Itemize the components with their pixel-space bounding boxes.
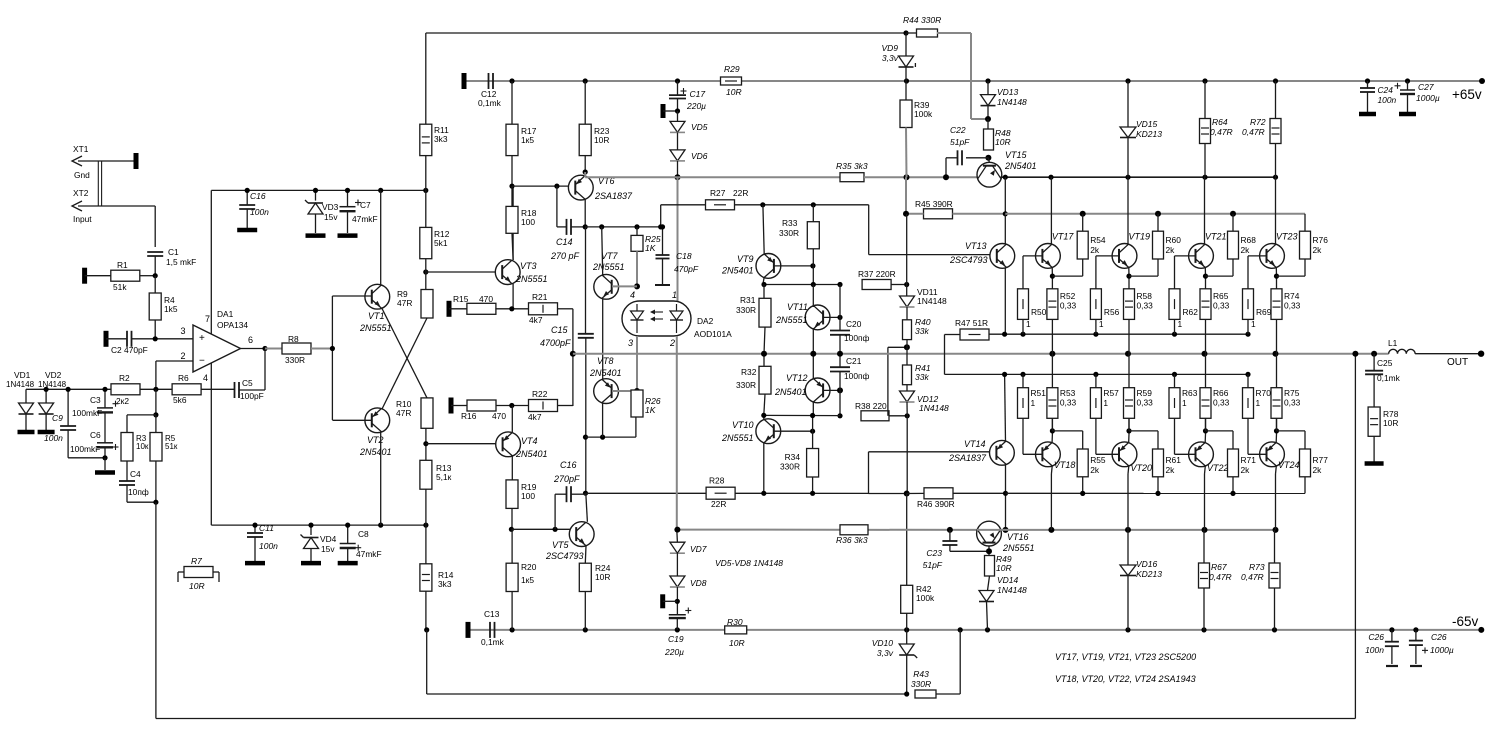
wire C15 column: [585, 227, 587, 334]
node R10 R13 VT4base: [423, 441, 428, 446]
svg-text:R69: R69: [1256, 307, 1272, 317]
svg-text:R61: R61: [1166, 455, 1182, 465]
svg-text:R47 51R: R47 51R: [955, 318, 988, 328]
wire row176: [585, 176, 840, 178]
wire VT11 base: [824, 316, 841, 318]
wire C4 to R5 bottom: [127, 501, 156, 503]
resistor R69 1ohm: [1243, 289, 1254, 320]
svg-text:VD7: VD7: [690, 544, 707, 554]
wire R43 right: [936, 693, 960, 695]
wire feedback riser: [1354, 354, 1356, 719]
wire pin6 to C5: [264, 349, 266, 391]
transistor VT16: [977, 521, 1002, 546]
svg-text:10R: 10R: [726, 87, 742, 97]
transistor VT11: [805, 305, 830, 330]
resistor R5: [155, 415, 157, 433]
wire emitter to R54: [1052, 275, 1082, 277]
svg-text:R66: R66: [1213, 388, 1229, 398]
wire VT23 emitter: [1275, 268, 1277, 277]
node C16: [245, 188, 250, 193]
resistor R63 1ohm: [1169, 388, 1180, 419]
resistor R42: [901, 585, 913, 613]
node rail177 x1205: [1202, 175, 1207, 180]
wire emitter to R61: [1129, 430, 1158, 432]
svg-text:1N4148: 1N4148: [997, 585, 1027, 595]
svg-text:2N5401: 2N5401: [721, 266, 754, 276]
wire output bus: [573, 353, 1389, 355]
resistor R18: [511, 186, 513, 206]
svg-text:R67: R67: [1211, 562, 1227, 572]
resistor R53 0.33: [1047, 388, 1058, 419]
node VT1 collector rail: [378, 188, 383, 193]
node VD10 R43: [904, 691, 909, 696]
svg-text:2SA1837: 2SA1837: [948, 453, 987, 463]
svg-text:C15: C15: [551, 325, 569, 335]
wire VT22 base: [1175, 453, 1197, 455]
wire DA2 pin3 down: [636, 336, 638, 390]
node emitter VT19: [1126, 274, 1131, 279]
node R2 C3: [102, 387, 107, 392]
svg-text:2N5551: 2N5551: [359, 323, 392, 333]
svg-text:C11: C11: [259, 523, 274, 533]
capacitor C24: [1367, 81, 1369, 88]
svg-text:R73: R73: [1249, 562, 1265, 572]
svg-text:0,33: 0,33: [1213, 398, 1230, 408]
wire R61 bottom: [1157, 477, 1159, 494]
ground C8: [338, 561, 358, 566]
wire VT1 emitter cross: [382, 309, 427, 398]
node VT11 base C20: [837, 315, 842, 320]
node VT7 collector: [599, 224, 604, 229]
svg-text:51pF: 51pF: [950, 137, 970, 147]
svg-text:C7: C7: [360, 200, 371, 210]
wire VT8 collector lead: [602, 404, 604, 438]
node VT16 right: [1003, 527, 1009, 533]
drive row 213 dots: [1080, 211, 1086, 217]
svg-text:R64: R64: [1212, 117, 1228, 127]
chassis tick -65v rail: [466, 622, 471, 638]
svg-text:47R: 47R: [397, 298, 412, 308]
svg-text:R37 220R: R37 220R: [858, 269, 896, 279]
svg-text:XT1: XT1: [73, 144, 89, 154]
wire VT6 base: [512, 185, 576, 187]
node R27 VT9: [760, 202, 765, 207]
svg-text:VT23: VT23: [1276, 232, 1298, 242]
opto DA2 photodiode: [636, 304, 638, 311]
resistor R45: [905, 177, 907, 214]
wire base column: [331, 296, 333, 420]
resistor R73: [1274, 530, 1276, 563]
resistor R57 1ohm: [1090, 388, 1101, 419]
wire R25 bottom: [636, 251, 638, 286]
resistor R59 0.33: [1124, 388, 1135, 419]
wire collector rail: [1001, 176, 1276, 178]
wire VT3 emitter: [512, 284, 514, 309]
wire VT18 base: [1023, 453, 1043, 455]
wire VT21 collector: [1204, 177, 1206, 244]
chassis tick C2: [104, 331, 109, 347]
wire VT1 base: [332, 295, 372, 297]
svg-text:R6: R6: [178, 373, 189, 383]
ground C11: [245, 561, 265, 566]
wire VT9 collector exit: [763, 278, 764, 285]
svg-text:R22: R22: [532, 389, 548, 399]
capacitor C25: [1373, 354, 1375, 371]
svg-text:R34: R34: [785, 452, 801, 462]
wire VT23 collector: [1275, 177, 1277, 244]
svg-text:1N4148: 1N4148: [38, 380, 67, 389]
svg-text:R53: R53: [1060, 388, 1076, 398]
wire -65v rail: [468, 629, 725, 631]
zener VD4: [310, 525, 312, 535]
resistor R29: [721, 77, 742, 85]
junction dots -65v rail: [509, 627, 514, 632]
wire emitter to R71: [1206, 430, 1234, 432]
transistor VT20: [1112, 442, 1137, 467]
svg-text:R46 390R: R46 390R: [917, 499, 955, 509]
wire R38 right: [889, 415, 907, 417]
svg-text:R58: R58: [1137, 291, 1153, 301]
wire R14 column to R43 line: [426, 630, 428, 694]
svg-text:47mkF: 47mkF: [352, 214, 378, 224]
svg-text:100n: 100n: [44, 433, 63, 443]
terminal OUT: [1478, 351, 1484, 357]
svg-text:Input: Input: [73, 214, 92, 224]
resistor R58 0.33: [1124, 289, 1135, 320]
svg-text:C4: C4: [130, 469, 141, 479]
svg-text:2N5401: 2N5401: [774, 387, 807, 397]
svg-text:Gnd: Gnd: [74, 170, 90, 180]
resistor R50 1ohm: [1018, 289, 1029, 320]
resistor R34: [807, 449, 819, 478]
wire top-left supply: [426, 32, 906, 34]
node emitter VT17: [1050, 274, 1055, 279]
node VT8 base R26: [634, 388, 640, 394]
svg-text:100mkF: 100mkF: [72, 408, 102, 418]
node C19 top: [675, 599, 680, 604]
wire R23 to VT6: [584, 156, 586, 176]
chassis tick C19: [660, 594, 665, 608]
wire feedback down: [155, 502, 157, 718]
wire VT8 collector row: [586, 436, 636, 438]
resistor R27: [706, 200, 735, 210]
node C17 VD5: [675, 108, 680, 113]
svg-text:C21: C21: [846, 356, 862, 366]
node C6 C9: [102, 455, 107, 460]
resistor R48: [987, 119, 989, 129]
diode VD16: [1127, 530, 1129, 565]
svg-text:AOD101A: AOD101A: [694, 329, 732, 339]
node R12 R9 VT3base: [423, 269, 428, 274]
wire R40R41 tap: [887, 347, 889, 416]
resistor R61 2k: [1153, 449, 1164, 477]
capacitor C3: [104, 389, 106, 408]
svg-text:C25: C25: [1377, 358, 1393, 368]
node emitter VT22: [1203, 428, 1208, 433]
svg-text:XT2: XT2: [73, 188, 89, 198]
svg-text:−: −: [199, 356, 205, 367]
resistor R78: [1373, 374, 1375, 407]
wire VT17 base: [1023, 255, 1043, 257]
wire VT4 emitter: [511, 406, 513, 433]
svg-text:3k3: 3k3: [438, 579, 452, 589]
svg-text:330R: 330R: [911, 679, 931, 689]
wire row176 right: [864, 176, 980, 178]
wire R28 right: [735, 492, 868, 494]
wire R56 bottom: [1095, 319, 1097, 334]
svg-text:R2: R2: [119, 373, 130, 383]
svg-text:33k: 33k: [915, 372, 929, 382]
svg-text:220µ: 220µ: [664, 647, 684, 657]
wire VT11 collector: [812, 285, 814, 308]
svg-text:1000µ: 1000µ: [1416, 93, 1440, 103]
node C14 tap: [554, 184, 559, 189]
resistor R52 0.33: [1047, 289, 1058, 320]
svg-text:1: 1: [1182, 398, 1187, 408]
wire VT7 base lead: [612, 285, 637, 287]
node C16 right: [583, 491, 588, 496]
lower drive rail dots: [1002, 372, 1007, 377]
wire R44 right: [937, 32, 971, 34]
svg-text:0,1mk: 0,1mk: [481, 637, 505, 647]
transistor VT14: [990, 440, 1015, 465]
svg-text:4700pF: 4700pF: [540, 338, 571, 348]
node C4 R5: [153, 500, 158, 505]
svg-text:0,47R: 0,47R: [1210, 127, 1233, 137]
node emitter VT18: [1050, 428, 1055, 433]
node emitter VT23: [1274, 274, 1279, 279]
wire VT13 emitter: [1004, 268, 1006, 334]
node VT8 collector: [600, 435, 605, 440]
chassis tick R15: [447, 301, 452, 317]
svg-text:R77: R77: [1313, 455, 1329, 465]
svg-text:2k: 2k: [1166, 245, 1176, 255]
resistor R76 2k: [1300, 231, 1311, 259]
svg-text:0,1mk: 0,1mk: [478, 98, 502, 108]
svg-text:R15: R15: [453, 294, 469, 304]
wire DA2 pin2 down: [676, 336, 678, 530]
svg-text:330R: 330R: [736, 380, 756, 390]
svg-text:100: 100: [521, 217, 535, 227]
ground VD4: [301, 561, 321, 566]
wire VT5 base row: [511, 528, 576, 530]
svg-text:1: 1: [1256, 398, 1261, 408]
svg-text:VT21: VT21: [1205, 232, 1227, 242]
resistor R39: [905, 81, 907, 100]
capacitor C26: [1391, 630, 1393, 642]
wire R27 riser: [660, 205, 662, 227]
svg-text:2SC4793: 2SC4793: [949, 255, 988, 265]
node C8: [345, 523, 350, 528]
wire VT7 collector: [602, 227, 603, 275]
wire VT10 base: [774, 430, 813, 432]
wire VT16 bottom: [988, 546, 990, 556]
resistor R41: [906, 340, 908, 348]
svg-text:270pF: 270pF: [553, 474, 580, 484]
wire +15v rail: [211, 189, 425, 191]
svg-text:R59: R59: [1137, 388, 1153, 398]
resistor R30: [725, 626, 747, 634]
svg-text:100mkF: 100mkF: [70, 444, 100, 454]
svg-text:VD10: VD10: [872, 638, 894, 648]
resistor R26: [631, 390, 643, 417]
node R8 base column: [330, 346, 335, 351]
capacitor C17: [677, 81, 679, 95]
svg-text:VD8: VD8: [690, 578, 707, 588]
svg-text:-65v: -65v: [1452, 614, 1479, 629]
node R14 rail: [424, 627, 429, 632]
chassis tick +65v rail: [462, 73, 467, 89]
svg-text:VT17, VT19, VT21, VT23 2SC5200: VT17, VT19, VT21, VT23 2SC5200: [1055, 652, 1196, 662]
op-amp DA1: [193, 325, 241, 372]
resistor R21: [529, 303, 558, 315]
svg-text:R33: R33: [782, 218, 798, 228]
wire lower coll row: [977, 529, 1276, 531]
capacitor C7: [347, 190, 349, 206]
wire R18 bottom to VT3: [512, 233, 513, 260]
resistor R35: [840, 173, 864, 182]
resistor R13: [425, 428, 427, 443]
node emitter VT21: [1203, 274, 1208, 279]
transistor VT13: [990, 244, 1015, 269]
capacitor C8: [347, 525, 349, 543]
wire VD8 to C19: [676, 587, 678, 615]
svg-text:4k7: 4k7: [528, 412, 542, 422]
svg-text:C27: C27: [1418, 82, 1434, 92]
svg-text:100k: 100k: [914, 109, 933, 119]
resistor R2: [111, 384, 140, 395]
svg-text:DA1: DA1: [217, 309, 234, 319]
resistor R6: [172, 384, 201, 395]
transistor VT9: [756, 254, 781, 279]
node row416 R34: [810, 413, 815, 418]
capacitor C18: [662, 227, 664, 255]
node rail177 x1051: [1048, 175, 1053, 180]
node VD2: [44, 387, 49, 392]
svg-text:220µ: 220µ: [686, 101, 706, 111]
resistor R36: [840, 525, 868, 535]
svg-text:3: 3: [628, 338, 633, 348]
resistor R77 2k: [1300, 449, 1311, 477]
wire R70 top: [1247, 374, 1249, 387]
wire VT12 base: [824, 389, 841, 391]
wire VT12 collector: [812, 402, 814, 417]
zener VD9: [905, 33, 907, 56]
wire R17 bottom: [511, 156, 513, 187]
svg-text:L1: L1: [1388, 338, 1398, 348]
svg-text:VT18, VT20, VT22, VT24 2SA1943: VT18, VT20, VT22, VT24 2SA1943: [1055, 674, 1196, 684]
wire VT9 emitter: [763, 205, 764, 255]
node row493 x907: [904, 491, 910, 497]
svg-text:0,33: 0,33: [1284, 301, 1301, 311]
ground VD1: [18, 430, 35, 435]
node C1 R1 R4: [153, 273, 158, 278]
diode VD14: [988, 576, 990, 591]
wire emitter to R68: [1206, 275, 1234, 277]
svg-text:51к: 51к: [165, 442, 178, 451]
wire R24 bottom: [584, 592, 586, 630]
node C7: [345, 188, 350, 193]
svg-text:10R: 10R: [1383, 418, 1398, 428]
svg-text:VT15: VT15: [1005, 150, 1028, 160]
chassis tick R16: [449, 398, 454, 414]
node emitter VT20: [1126, 428, 1131, 433]
wire VT7 emitter to VT8: [602, 298, 604, 380]
svg-text:1N4148: 1N4148: [919, 403, 949, 413]
wire R74 bottom: [1276, 319, 1278, 353]
node C9: [66, 387, 71, 392]
svg-text:1N4148: 1N4148: [6, 380, 35, 389]
svg-text:1: 1: [672, 290, 677, 300]
wire R21 right: [557, 308, 573, 310]
svg-text:51pF: 51pF: [923, 560, 943, 570]
wire XT1 to chassis: [78, 160, 134, 162]
opto DA2: [622, 301, 691, 336]
svg-text:VD14: VD14: [997, 575, 1019, 585]
svg-text:1к5: 1к5: [521, 135, 534, 145]
wire pin6 out: [241, 348, 266, 350]
transistor VT15: [988, 158, 989, 163]
svg-text:2k: 2k: [1241, 245, 1251, 255]
transistor VT7: [594, 274, 619, 299]
svg-text:VD5-VD8 1N4148: VD5-VD8 1N4148: [715, 558, 783, 568]
svg-text:C16: C16: [250, 191, 266, 201]
transistor VT22: [1189, 442, 1214, 467]
transistor VT12: [805, 378, 830, 403]
wire R5 top node: [155, 389, 157, 415]
resistor R12: [425, 156, 427, 228]
svg-text:1: 1: [1031, 398, 1036, 408]
resistor R16: [451, 405, 467, 407]
svg-text:0,33: 0,33: [1137, 398, 1154, 408]
svg-text:330R: 330R: [780, 462, 800, 472]
node C22 row176: [943, 174, 949, 180]
diode VD7: [670, 542, 685, 553]
svg-text:10к: 10к: [136, 442, 149, 451]
wire VT6 collector: [584, 200, 586, 227]
resistor R9: [425, 259, 427, 290]
svg-text:+65v: +65v: [1452, 87, 1482, 102]
capacitor C19: [669, 614, 686, 616]
svg-text:R20: R20: [521, 562, 537, 572]
svg-text:VT19: VT19: [1129, 232, 1151, 242]
resistor R67: [1203, 530, 1205, 563]
transistor VT1: [380, 190, 382, 285]
svg-text:330R: 330R: [736, 305, 756, 315]
svg-text:R44 330R: R44 330R: [903, 15, 941, 25]
svg-text:470pF: 470pF: [674, 264, 699, 274]
wire R36 row: [677, 529, 977, 531]
capacitor C14: [556, 186, 558, 227]
capacitor C28: [1415, 630, 1417, 641]
wire VT21 emitter: [1204, 268, 1206, 277]
wire R52 bottom: [1051, 319, 1053, 353]
capacitor C22: [966, 157, 988, 159]
node rail177 x1005: [1003, 175, 1008, 180]
svg-text:2k: 2k: [1090, 245, 1100, 255]
svg-text:2N5401: 2N5401: [359, 447, 392, 457]
chassis tick XT1: [134, 153, 139, 169]
svg-text:VD5: VD5: [691, 122, 708, 132]
svg-text:KD213: KD213: [1136, 129, 1162, 139]
wire emitter to R76: [1277, 275, 1306, 277]
ground C7: [338, 233, 358, 238]
wire R68 top: [1232, 214, 1234, 231]
junction dots +65v rail: [509, 78, 514, 83]
svg-text:15v: 15v: [321, 544, 335, 554]
wire VD6 to row: [677, 161, 679, 177]
wire R51 top: [1022, 374, 1024, 387]
